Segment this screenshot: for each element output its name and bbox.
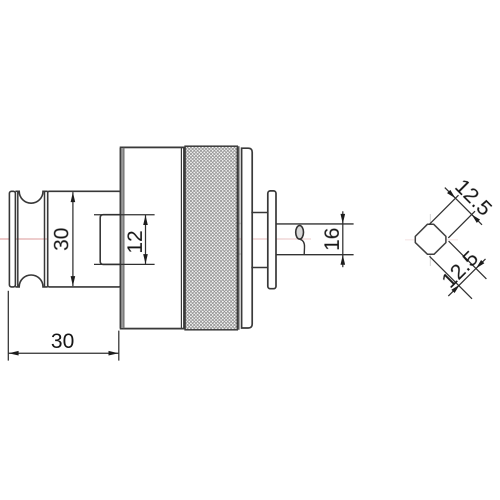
dim 12 line [145, 215, 147, 265]
dim 12.5 lower arrow bottom [451, 285, 459, 293]
dim 12.5 lower ext D [449, 241, 487, 279]
step boss 12 [100, 215, 120, 265]
square end view octagon [415, 224, 446, 254]
body groove before knurl [180, 147, 182, 328]
dim 30 bottom arrow right [109, 351, 119, 356]
shank left flange [9, 191, 15, 287]
flange disc [268, 191, 276, 289]
dim 16 arrow top [341, 214, 346, 224]
shank cylinder [48, 191, 121, 287]
tap end ellipse [296, 226, 304, 240]
tap shaft bottom line / ext 16 [276, 254, 354, 256]
dim 12 arrow down [143, 254, 148, 264]
svg-text:30: 30 [50, 228, 73, 251]
dim 12 ext bottom [94, 263, 155, 265]
dim 30 bottom line [8, 352, 119, 354]
svg-text:12: 12 [124, 230, 147, 253]
dim 12.5 upper arrow right [472, 215, 480, 223]
dim 30 vertical arrow up [71, 192, 76, 202]
tap shaft top line / ext 16 [276, 223, 354, 225]
small shaft bottom line [251, 267, 267, 269]
centerline square view horizontal [405, 239, 458, 241]
small shaft top line [251, 212, 267, 214]
dim 12.5 lower arrow top [476, 260, 484, 268]
knurl band [185, 146, 237, 330]
dim 12 arrow up [143, 215, 148, 225]
dim 30 bottom ext right [118, 331, 120, 361]
dim 30 bottom arrow left [9, 351, 19, 356]
dim 12.5 lower line [448, 259, 485, 296]
body left edge inner line [123, 148, 125, 328]
dim 12.5 upper ext B [448, 211, 475, 238]
centerline main horizontal [0, 238, 311, 240]
dim 16 arrow bottom [341, 255, 346, 265]
dim 16 line [342, 211, 344, 267]
body plain section [121, 147, 184, 328]
svg-text:16: 16 [321, 228, 344, 251]
svg-text:30: 30 [51, 330, 74, 353]
body left edge thick band [120, 148, 124, 328]
dim 12.5 upper ext A [429, 195, 459, 225]
shank land lines [18, 191, 45, 287]
dim 12.5 upper arrow left [447, 190, 455, 198]
shank groove section [15, 191, 47, 287]
dim 12.5 upper line [445, 188, 482, 225]
dim 30 bottom ext left [7, 291, 9, 361]
knurl end line [238, 146, 240, 330]
dim 12 ext top [94, 214, 155, 216]
dim 30 vertical arrow down [71, 276, 76, 286]
tap end break arc [300, 239, 305, 255]
centerline square view vertical [429, 214, 431, 266]
hidden bore outline [153, 223, 250, 254]
dim 30 vertical line [72, 192, 74, 286]
dim 12.5 lower ext C [430, 256, 473, 299]
right ring [242, 148, 253, 328]
